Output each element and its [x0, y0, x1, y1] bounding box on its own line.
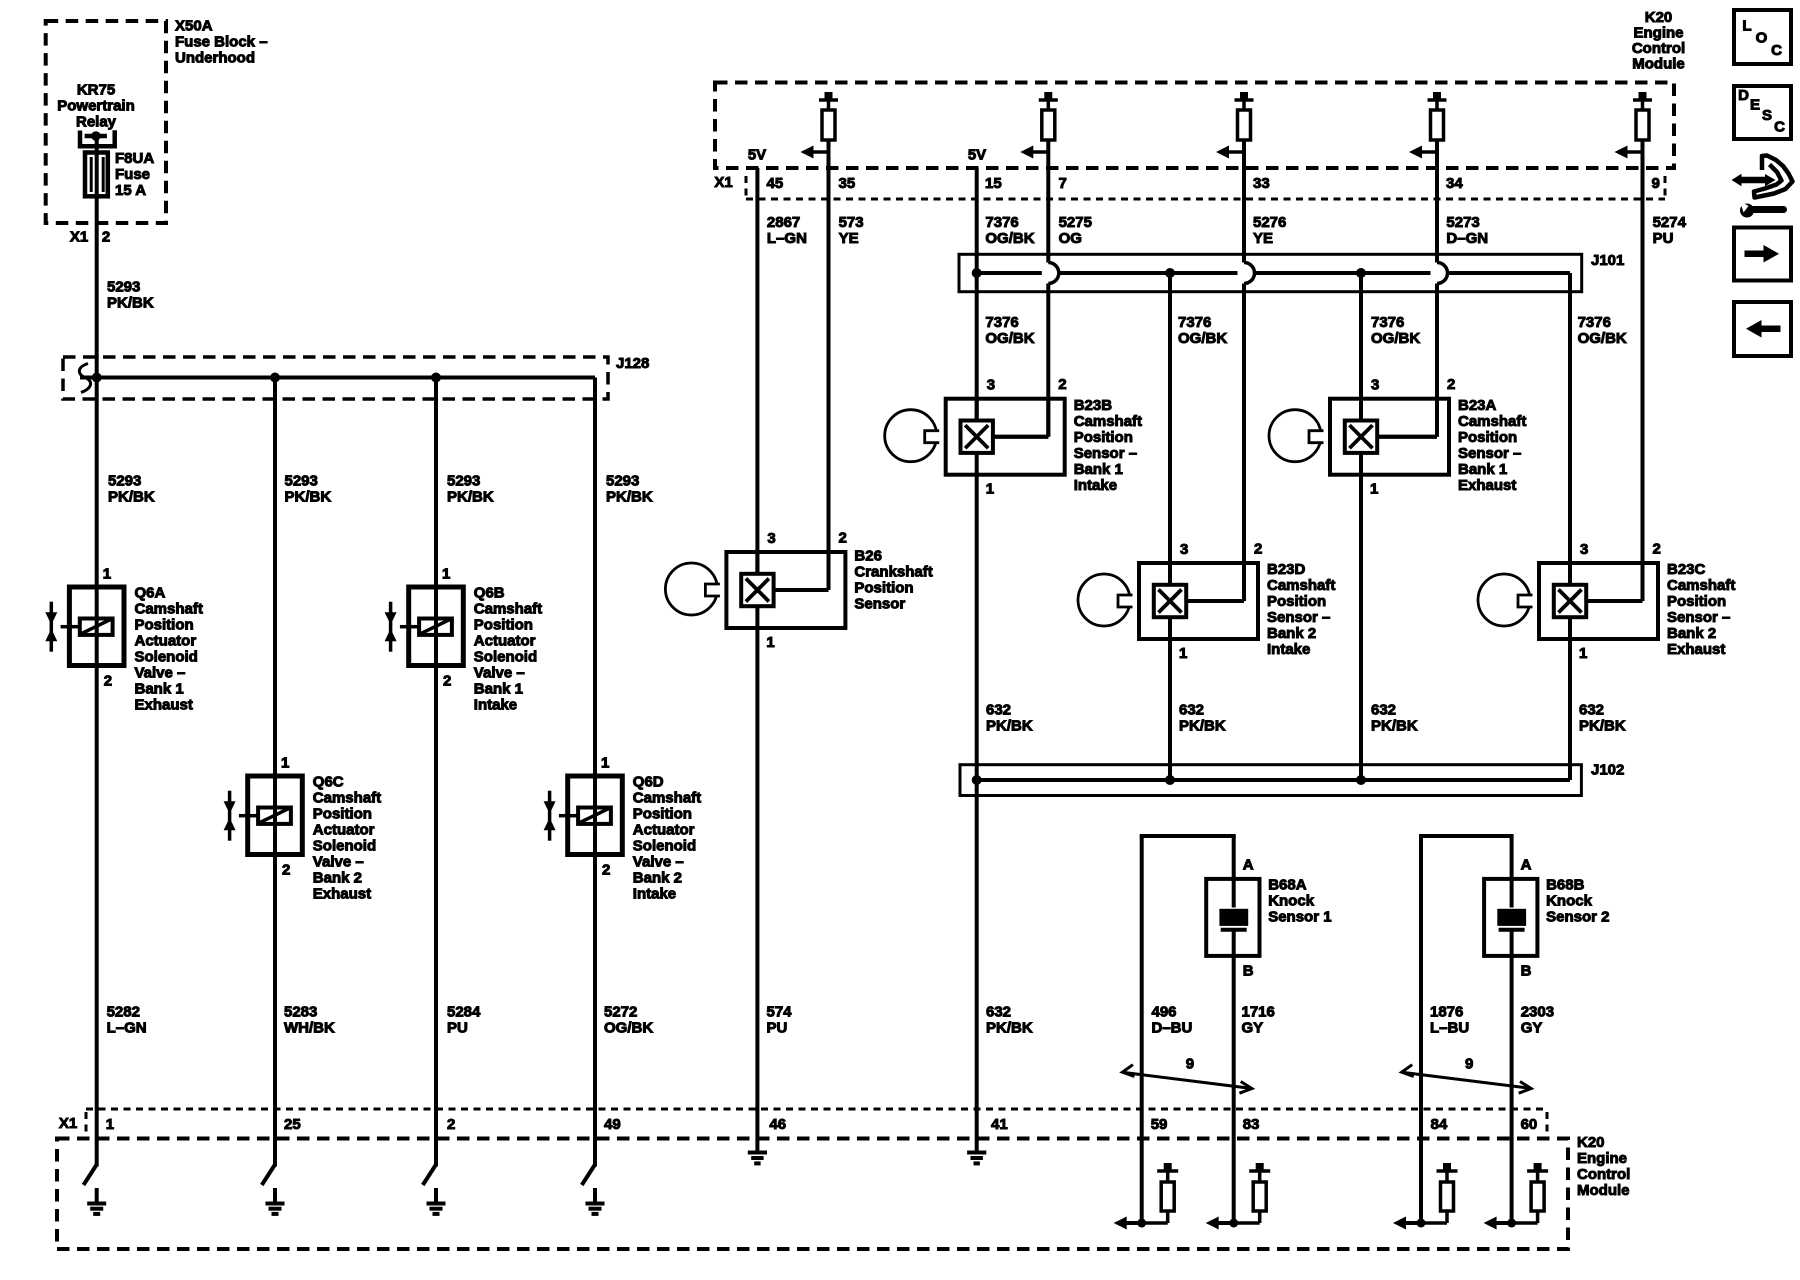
svg-text:Position: Position: [1074, 429, 1133, 446]
svg-text:Camshaft: Camshaft: [1074, 413, 1142, 430]
svg-text:PK/BK: PK/BK: [107, 295, 154, 312]
relay KR75: [57, 82, 135, 154]
svg-text:2: 2: [447, 1116, 455, 1133]
svg-text:Knock: Knock: [1546, 893, 1593, 910]
svg-text:X1: X1: [59, 1115, 77, 1132]
svg-text:O: O: [1756, 30, 1768, 47]
svg-text:Sensor: Sensor: [854, 596, 905, 613]
svg-text:Solenoid: Solenoid: [474, 649, 537, 666]
junction block J128 (dashed): [63, 355, 649, 399]
svg-text:5293: 5293: [285, 473, 318, 490]
wire 496 D-BU (X1 pin 59 up and over to B68A pin A): [1140, 836, 1236, 1109]
net 5V (right): [968, 147, 986, 164]
wire 5283 WH/BK (Q6C pin 2 to X1 pin 25): [275, 855, 335, 1110]
wire splice bus J102 (632 PK/BK common): [977, 778, 1570, 782]
connector X1 (ECM bottom, dotted line): [59, 1109, 1547, 1138]
svg-text:Camshaft: Camshaft: [313, 790, 381, 807]
svg-text:7376: 7376: [1578, 314, 1611, 331]
svg-text:2: 2: [1254, 541, 1262, 558]
svg-text:1: 1: [986, 481, 994, 498]
wire 5276 YE (X1 pin 33 to B23D pin 2, hops over J101 bus): [1188, 140, 1287, 601]
svg-text:5V: 5V: [748, 147, 766, 164]
svg-text:49: 49: [604, 1116, 621, 1133]
svg-text:83: 83: [1243, 1116, 1260, 1133]
resistor (ECM internal pull-up at x=828.5): [819, 92, 838, 140]
svg-text:B23A: B23A: [1458, 397, 1497, 414]
svg-text:Sensor –: Sensor –: [1667, 609, 1730, 626]
arrow (ECM internal, points left, at x=1048.3): [1020, 146, 1048, 159]
svg-text:45: 45: [767, 175, 784, 192]
wire 632 PK/BK (B23B pin 1 through J102 to X1 pin 41): [977, 475, 1033, 1109]
ground (ECM internal, below X1 pin 49): [582, 1109, 605, 1214]
node: J101 junction dots: [972, 268, 1366, 278]
svg-text:Camshaft: Camshaft: [1458, 413, 1526, 430]
svg-text:1: 1: [601, 755, 609, 772]
svg-text:5273: 5273: [1446, 214, 1479, 231]
wire 7376 OG/BK (J101 to B23A pin 3): [1361, 273, 1420, 421]
resistor (ECM internal pull-up at x=1244): [1235, 92, 1254, 140]
svg-text:84: 84: [1431, 1116, 1448, 1133]
svg-text:632: 632: [986, 1004, 1011, 1021]
wire splice bus J128: [79, 364, 595, 393]
svg-text:7376: 7376: [985, 314, 1018, 331]
resistor (ECM internal pull-up at x=1437): [1428, 92, 1447, 140]
net 5V (left): [748, 147, 766, 164]
svg-text:Solenoid: Solenoid: [135, 649, 198, 666]
svg-text:Position: Position: [313, 806, 372, 823]
connector X1 (ECM top, dotted line): [714, 174, 1665, 199]
svg-text:Exhaust: Exhaust: [135, 697, 193, 714]
svg-text:7376: 7376: [1178, 314, 1211, 331]
resistor (ECM internal pull-up at x=1048.3): [1039, 92, 1058, 140]
svg-text:B: B: [1243, 963, 1254, 980]
wire 5293 PK/BK (J128 branch at x=96.7): [97, 378, 155, 588]
svg-text:X50A: X50A: [175, 18, 213, 35]
svg-text:2303: 2303: [1521, 1004, 1554, 1021]
svg-text:E: E: [1750, 97, 1760, 114]
svg-text:YE: YE: [839, 230, 859, 247]
ground (ECM internal, below X1 pin 41): [967, 1109, 986, 1163]
resistor and arrow (ECM internal, below X1 pin 84): [1393, 1109, 1458, 1230]
svg-text:632: 632: [1179, 702, 1204, 719]
wire 574 PU (B26 pin 1 to X1 pin 46): [757, 628, 792, 1109]
svg-text:Camshaft: Camshaft: [633, 790, 701, 807]
wire 1876 L-BU (X1 pin 84 up and over to B68B pin A): [1419, 836, 1514, 1109]
svg-text:7: 7: [1059, 175, 1067, 192]
wire 5274 PU (X1 pin 9 to B23C pin 2): [1588, 140, 1687, 601]
ground (ECM internal, below X1 pin 46): [748, 1109, 767, 1163]
junction block J101: [959, 252, 1624, 292]
svg-text:A: A: [1243, 857, 1254, 874]
solenoid valve Q6B (Camshaft Position Actuator Solenoid Valve - Bank 1 Intake): [385, 566, 543, 714]
wire 7376 OG/BK (J101 to B23B pin 3): [977, 273, 1035, 421]
svg-text:15: 15: [985, 175, 1002, 192]
svg-text:L–GN: L–GN: [107, 1020, 147, 1037]
wire 5293 PK/BK (fuse to J128): [97, 196, 154, 378]
svg-text:PU: PU: [1653, 230, 1674, 247]
svg-text:Exhaust: Exhaust: [1667, 641, 1725, 658]
icon LOC (legend box): [1734, 10, 1791, 64]
sensor B23A (Camshaft Position Sensor - Bank 1 Exhaust): [1269, 376, 1526, 498]
svg-text:J101: J101: [1591, 252, 1624, 269]
svg-text:L–BU: L–BU: [1430, 1020, 1469, 1037]
wire 7376 OG/BK (J101 to B23C pin 3): [1570, 292, 1627, 585]
wire 2867 L-GN (X1 pin 45 to B26 pin 3): [757, 168, 807, 574]
svg-text:YE: YE: [1253, 230, 1273, 247]
svg-text:Exhaust: Exhaust: [313, 886, 371, 903]
svg-text:Intake: Intake: [474, 697, 517, 714]
ground (ECM internal, below X1 pin 25): [262, 1109, 285, 1214]
svg-text:1: 1: [1579, 645, 1587, 662]
svg-text:Bank 2: Bank 2: [633, 870, 682, 887]
svg-text:PK/BK: PK/BK: [606, 489, 653, 506]
svg-text:PU: PU: [767, 1020, 788, 1037]
svg-text:2: 2: [443, 673, 451, 690]
ECM K20 upper dashed box: [715, 83, 1674, 169]
svg-text:2: 2: [1058, 376, 1066, 393]
svg-text:Valve –: Valve –: [135, 665, 186, 682]
wire 5293 PK/BK (J128 branch at x=436): [436, 378, 494, 588]
svg-text:Sensor 1: Sensor 1: [1268, 909, 1331, 926]
svg-text:2: 2: [1653, 541, 1661, 558]
wire 5293 PK/BK (J128 branch at x=595): [595, 378, 653, 777]
svg-text:9: 9: [1465, 1056, 1473, 1073]
pins 45 35 15 7 33 34 9 (X1 top row): [767, 175, 1660, 192]
svg-text:WH/BK: WH/BK: [284, 1020, 335, 1037]
svg-text:34: 34: [1446, 175, 1463, 192]
svg-text:632: 632: [986, 702, 1011, 719]
solenoid valve Q6C (Camshaft Position Actuator Solenoid Valve - Bank 2 Exhaust): [224, 755, 382, 903]
svg-text:5V: 5V: [968, 147, 986, 164]
svg-text:Q6A: Q6A: [135, 585, 166, 602]
svg-text:X1: X1: [714, 174, 732, 191]
svg-text:Valve –: Valve –: [313, 854, 364, 871]
svg-text:2867: 2867: [767, 214, 800, 231]
svg-text:Actuator: Actuator: [313, 822, 375, 839]
svg-text:Relay: Relay: [76, 114, 117, 131]
svg-text:Position: Position: [474, 617, 533, 634]
fuse block X50A (dashed outline): [46, 21, 166, 223]
svg-text:K20: K20: [1577, 1134, 1605, 1151]
svg-text:Bank 1: Bank 1: [1074, 461, 1123, 478]
svg-text:1: 1: [442, 566, 450, 583]
svg-text:Engine: Engine: [1577, 1150, 1627, 1167]
svg-text:D: D: [1738, 87, 1749, 104]
svg-text:Camshaft: Camshaft: [474, 601, 542, 618]
svg-text:3: 3: [1580, 541, 1588, 558]
svg-text:Control: Control: [1632, 40, 1685, 57]
svg-text:X1: X1: [70, 229, 88, 246]
svg-text:1: 1: [1370, 481, 1378, 498]
svg-text:Fuse: Fuse: [115, 166, 150, 183]
svg-text:1716: 1716: [1242, 1004, 1275, 1021]
svg-text:PK/BK: PK/BK: [1371, 718, 1418, 735]
svg-text:PK/BK: PK/BK: [986, 718, 1033, 735]
svg-text:Powertrain: Powertrain: [57, 98, 135, 115]
svg-text:C: C: [1771, 42, 1782, 59]
svg-text:S: S: [1762, 107, 1772, 124]
svg-text:5293: 5293: [108, 473, 141, 490]
svg-text:Position: Position: [1267, 593, 1326, 610]
junction block J102: [960, 762, 1624, 796]
svg-text:1: 1: [766, 634, 774, 651]
svg-text:7376: 7376: [985, 214, 1018, 231]
svg-text:Sensor –: Sensor –: [1267, 609, 1330, 626]
svg-text:574: 574: [767, 1004, 793, 1021]
svg-text:L–GN: L–GN: [767, 230, 807, 247]
sensor B23D (Camshaft Position Sensor - Bank 2 Intake): [1078, 541, 1335, 663]
wire 1716 GY (B68A pin B to X1 pin 83): [1234, 956, 1275, 1109]
svg-text:Bank 1: Bank 1: [474, 681, 523, 698]
svg-text:Module: Module: [1632, 56, 1685, 73]
solenoid valve Q6A (Camshaft Position Actuator Solenoid Valve - Bank 1 Exhaust): [45, 566, 203, 714]
label K20 Engine Control Module (bottom right): [1577, 1134, 1630, 1199]
svg-text:2: 2: [102, 229, 110, 246]
svg-text:B23C: B23C: [1667, 561, 1706, 578]
wire 7376 OG/BK (X1 pin 15 to J101): [977, 168, 1035, 273]
svg-text:PK/BK: PK/BK: [285, 489, 332, 506]
svg-text:2: 2: [602, 862, 610, 879]
svg-text:573: 573: [839, 214, 864, 231]
wire 632 PK/BK (B23A pin 1 to J102): [1361, 475, 1418, 780]
svg-text:33: 33: [1253, 175, 1270, 192]
wire 5293 PK/BK (J128 branch at x=275): [275, 378, 331, 777]
svg-text:5272: 5272: [604, 1004, 637, 1021]
fuse F8UA 15 A: [85, 150, 154, 199]
svg-text:Valve –: Valve –: [474, 665, 525, 682]
svg-text:632: 632: [1579, 702, 1604, 719]
svg-text:2: 2: [104, 673, 112, 690]
svg-text:Camshaft: Camshaft: [1267, 577, 1335, 594]
knock sensor B68B (Knock Sensor 2): [1484, 857, 1609, 980]
svg-text:OG/BK: OG/BK: [1578, 330, 1627, 347]
resistor (ECM internal pull-up at x=1642.5): [1633, 92, 1652, 140]
node: J102 junction dots: [972, 775, 1366, 785]
svg-text:46: 46: [769, 1116, 786, 1133]
icon back arrow (legend box): [1734, 302, 1791, 356]
svg-text:5293: 5293: [606, 473, 639, 490]
svg-text:Bank 2: Bank 2: [1267, 625, 1316, 642]
svg-text:Solenoid: Solenoid: [633, 838, 696, 855]
svg-text:496: 496: [1152, 1004, 1177, 1021]
svg-text:Position: Position: [633, 806, 692, 823]
svg-text:PK/BK: PK/BK: [1579, 718, 1626, 735]
svg-text:Q6B: Q6B: [474, 585, 505, 602]
node: J128 junction dots: [92, 373, 441, 383]
svg-text:5274: 5274: [1653, 214, 1687, 231]
svg-text:K20: K20: [1645, 9, 1673, 26]
svg-text:3: 3: [987, 377, 995, 394]
svg-text:A: A: [1521, 857, 1532, 874]
svg-text:3: 3: [767, 530, 775, 547]
wire splice bus J101 (7376 OG/BK distribution): [977, 273, 1570, 292]
svg-text:KR75: KR75: [77, 82, 115, 99]
svg-text:2: 2: [839, 530, 847, 547]
sensor B26 (Crankshaft Position Sensor): [665, 530, 932, 652]
svg-text:J128: J128: [616, 355, 649, 372]
svg-text:Sensor –: Sensor –: [1074, 445, 1137, 462]
wire 5282 L-GN (Q6A pin 2 to X1 pin 1): [97, 666, 147, 1110]
label X50A Fuse Block - Underhood: [175, 18, 268, 67]
svg-text:Fuse Block –: Fuse Block –: [175, 34, 268, 51]
svg-text:J102: J102: [1591, 762, 1624, 779]
svg-text:PK/BK: PK/BK: [447, 489, 494, 506]
svg-text:7376: 7376: [1371, 314, 1404, 331]
svg-text:35: 35: [839, 175, 856, 192]
svg-text:Intake: Intake: [1074, 477, 1117, 494]
svg-text:Bank 2: Bank 2: [1667, 625, 1716, 642]
resistor and arrow (ECM internal, below X1 pin 60): [1484, 1109, 1549, 1230]
wire 5273 D-GN (X1 pin 34 to B23A pin 2, hops over J101 bus): [1379, 140, 1489, 437]
svg-text:5275: 5275: [1059, 214, 1092, 231]
svg-text:2: 2: [1447, 376, 1455, 393]
wire 2303 GY (B68B pin B to X1 pin 60): [1512, 956, 1554, 1109]
svg-text:9: 9: [1186, 1056, 1194, 1073]
svg-text:Engine: Engine: [1633, 25, 1683, 42]
svg-text:Position: Position: [135, 617, 194, 634]
svg-text:OG/BK: OG/BK: [1371, 330, 1420, 347]
label K20 Engine Control Module (top right): [1632, 9, 1685, 73]
svg-text:1: 1: [103, 566, 111, 583]
svg-text:L: L: [1742, 18, 1751, 35]
ground (ECM internal, below X1 pin 2): [423, 1109, 446, 1214]
resistor and arrow (ECM internal, below X1 pin 59): [1114, 1109, 1179, 1230]
svg-text:Module: Module: [1577, 1182, 1630, 1199]
svg-text:Camshaft: Camshaft: [135, 601, 203, 618]
svg-text:Sensor 2: Sensor 2: [1546, 909, 1609, 926]
svg-text:1: 1: [1179, 645, 1187, 662]
wire 5275 OG (X1 pin 7 to B23B pin 2, hops over J101 bus): [994, 140, 1092, 437]
svg-text:B68A: B68A: [1268, 877, 1307, 894]
svg-text:PK/BK: PK/BK: [1179, 718, 1226, 735]
wire 5284 PU (Q6B pin 2 to X1 pin 2): [436, 666, 481, 1110]
svg-text:GY: GY: [1242, 1020, 1264, 1037]
wire 7376 OG/BK (J101 to B23D pin 3): [1170, 273, 1227, 585]
svg-text:2: 2: [282, 862, 290, 879]
svg-text:Sensor –: Sensor –: [1458, 445, 1521, 462]
svg-text:PK/BK: PK/BK: [108, 489, 155, 506]
svg-text:Exhaust: Exhaust: [1458, 477, 1516, 494]
icon wrench with arrows (legend): [1732, 156, 1793, 218]
svg-text:1: 1: [106, 1116, 114, 1133]
svg-text:41: 41: [991, 1116, 1008, 1133]
arrow (ECM internal, points left, at x=828.5): [801, 146, 829, 159]
svg-text:Camshaft: Camshaft: [1667, 577, 1735, 594]
connector X1 pin 2 (fuse block output): [70, 229, 110, 246]
svg-text:Bank 2: Bank 2: [313, 870, 362, 887]
pins 1 25 2 49 46 41 59 83 84 60 (X1 bottom row): [106, 1116, 1538, 1133]
svg-text:5282: 5282: [107, 1004, 140, 1021]
svg-text:Position: Position: [854, 580, 913, 597]
svg-text:Position: Position: [1458, 429, 1517, 446]
solenoid valve Q6D (Camshaft Position Actuator Solenoid Valve - Bank 2 Intake): [544, 755, 702, 903]
twisted pair marker 9 (B68A wires): [1122, 1056, 1252, 1094]
svg-text:OG/BK: OG/BK: [985, 230, 1034, 247]
ground (ECM internal, below X1 pin 1): [84, 1109, 107, 1214]
svg-text:GY: GY: [1521, 1020, 1543, 1037]
svg-text:Intake: Intake: [1267, 641, 1310, 658]
icon forward arrow (legend box): [1734, 228, 1791, 281]
svg-text:OG/BK: OG/BK: [1178, 330, 1227, 347]
svg-text:1876: 1876: [1430, 1004, 1463, 1021]
svg-text:Intake: Intake: [633, 886, 676, 903]
svg-text:C: C: [1774, 119, 1785, 136]
sensor B23C (Camshaft Position Sensor - Bank 2 Exhaust): [1478, 541, 1735, 663]
ECM K20 lower dashed box: [57, 1139, 1568, 1250]
svg-text:3: 3: [1180, 541, 1188, 558]
svg-text:D–BU: D–BU: [1152, 1020, 1193, 1037]
svg-text:Knock: Knock: [1268, 893, 1315, 910]
svg-text:B26: B26: [854, 548, 882, 565]
svg-text:Actuator: Actuator: [633, 822, 695, 839]
svg-text:D–GN: D–GN: [1446, 230, 1488, 247]
svg-text:15 A: 15 A: [115, 182, 146, 199]
icon DESC (legend box): [1734, 86, 1791, 139]
svg-text:5293: 5293: [107, 279, 140, 296]
svg-text:B: B: [1521, 963, 1532, 980]
arrow (ECM internal, points left, at x=1244): [1216, 146, 1244, 159]
svg-text:F8UA: F8UA: [115, 150, 154, 167]
arrow (ECM internal, points left, at x=1642.5): [1615, 146, 1643, 159]
svg-text:Q6C: Q6C: [313, 774, 344, 791]
knock sensor B68A (Knock Sensor 1): [1206, 857, 1331, 980]
svg-text:B23B: B23B: [1074, 397, 1113, 414]
svg-text:Bank 1: Bank 1: [1458, 461, 1507, 478]
svg-text:Q6D: Q6D: [633, 774, 664, 791]
svg-text:PK/BK: PK/BK: [986, 1020, 1033, 1037]
svg-text:Actuator: Actuator: [474, 633, 536, 650]
arrow (ECM internal, points left, at x=1437): [1409, 146, 1437, 159]
svg-text:5284: 5284: [447, 1004, 481, 1021]
svg-text:OG/BK: OG/BK: [985, 330, 1034, 347]
svg-text:OG/BK: OG/BK: [604, 1020, 653, 1037]
svg-text:632: 632: [1371, 702, 1396, 719]
svg-text:5283: 5283: [284, 1004, 317, 1021]
svg-text:B68B: B68B: [1546, 877, 1585, 894]
svg-text:Solenoid: Solenoid: [313, 838, 376, 855]
svg-text:PU: PU: [447, 1020, 468, 1037]
svg-text:5276: 5276: [1253, 214, 1286, 231]
svg-text:1: 1: [281, 755, 289, 772]
wire 573 YE (X1 pin 35 to B26 pin 2): [775, 140, 864, 590]
twisted pair marker 9 (B68B wires): [1402, 1056, 1532, 1094]
svg-text:5293: 5293: [447, 473, 480, 490]
svg-text:Valve –: Valve –: [633, 854, 684, 871]
svg-text:OG: OG: [1059, 230, 1082, 247]
svg-text:25: 25: [284, 1116, 301, 1133]
wire 632 PK/BK (B23D pin 1 to J102): [1170, 639, 1226, 780]
svg-text:Control: Control: [1577, 1166, 1630, 1183]
resistor and arrow (ECM internal, below X1 pin 83): [1206, 1109, 1271, 1230]
svg-text:Actuator: Actuator: [135, 633, 197, 650]
svg-text:Position: Position: [1667, 593, 1726, 610]
wire 5272 OG/BK (Q6D pin 2 to X1 pin 49): [595, 855, 653, 1110]
svg-text:Bank 1: Bank 1: [135, 681, 184, 698]
svg-text:Underhood: Underhood: [175, 50, 255, 67]
svg-text:59: 59: [1151, 1116, 1168, 1133]
svg-text:9: 9: [1652, 175, 1660, 192]
svg-text:3: 3: [1371, 377, 1379, 394]
sensor B23B (Camshaft Position Sensor - Bank 1 Intake): [885, 376, 1142, 498]
svg-text:60: 60: [1521, 1116, 1538, 1133]
wire 632 PK/BK (B23C pin 1 to J102): [1570, 639, 1626, 780]
svg-text:B23D: B23D: [1267, 561, 1306, 578]
svg-text:Crankshaft: Crankshaft: [854, 564, 932, 581]
